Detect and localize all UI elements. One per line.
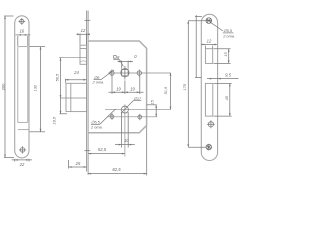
strike bottom screw hole: [206, 144, 211, 151]
dimension 45 strike: [214, 83, 232, 116]
keyhole centerline horizontal: [105, 109, 171, 111]
hole d8 right: [137, 70, 141, 77]
dimension 9.5 strike: [207, 78, 239, 80]
dimension 56.5: [60, 58, 62, 98]
svg-text:51,5: 51,5: [163, 86, 168, 94]
dimension 25: [69, 160, 87, 169]
dimension 52.5: [88, 153, 125, 155]
faceplate end ticks: [84, 20, 90, 150]
dimension 16 left plate: [16, 35, 31, 46]
svg-text:2 отв.: 2 отв.: [222, 33, 235, 38]
dimension 24 deadbolt: [65, 79, 86, 83]
svg-text:82,5: 82,5: [112, 167, 121, 172]
strike upper slot: [205, 49, 212, 64]
dimension 19.5 deadbolt half: [60, 98, 68, 114]
dimension 132 left plate box: [30, 47, 46, 132]
svg-text:15: 15: [223, 52, 228, 57]
svg-text:8: 8: [117, 55, 120, 60]
hole d6.5 right: [138, 114, 142, 120]
leader d5.5: [211, 23, 234, 33]
svg-text:56,5: 56,5: [54, 73, 59, 81]
lock body outline: [88, 41, 147, 133]
svg-text:∅17: ∅17: [134, 96, 143, 101]
svg-text:0: 0: [134, 54, 137, 59]
deadbolt: [66, 83, 87, 111]
svg-text:15: 15: [150, 99, 155, 104]
hole d6.5 left: [110, 113, 114, 119]
lower holes centerline: [107, 116, 157, 118]
svg-text:9,5: 9,5: [225, 72, 231, 77]
svg-text:19: 19: [130, 87, 135, 92]
svg-text:12: 12: [207, 38, 212, 43]
svg-text:∅5,5: ∅5,5: [223, 28, 233, 33]
dimension 82.5: [88, 127, 147, 176]
keyhole centerline vertical: [124, 104, 126, 156]
dimension 175 right plate: [187, 21, 189, 147]
dimension 19 19: [109, 76, 144, 94]
left plate inner box: [18, 47, 29, 130]
strike lower slot: [205, 83, 212, 116]
middle faceplate double line: [87, 11, 89, 176]
svg-text:19: 19: [116, 87, 121, 92]
label d8 2otv: [94, 70, 115, 80]
left plate outline: [15, 16, 29, 158]
dimension 12 strike slot: [201, 45, 217, 49]
svg-text:200: 200: [0, 83, 5, 91]
svg-text:19,5: 19,5: [52, 116, 57, 124]
dimension 200 left plate height: [4, 16, 14, 158]
dimension 10 keyhole tail: [115, 133, 135, 148]
left plate bottom screw hole: [19, 146, 26, 153]
ext line top hole: [188, 20, 206, 22]
dimension 15 right gap: [147, 105, 157, 117]
strike middle hole: [207, 120, 215, 128]
svg-text:22: 22: [19, 162, 25, 167]
right plate top screw hole: [206, 18, 212, 24]
dimension 51.5 right gap: [170, 73, 172, 110]
aux dim line right plate: [195, 15, 202, 78]
dimension 22 left plate width: [12, 159, 33, 162]
label d17: [121, 101, 141, 114]
label square 8: [113, 56, 123, 67]
latch centerline: [59, 57, 87, 59]
svg-text:10: 10: [124, 138, 129, 143]
svg-text:2 отв.: 2 отв.: [90, 124, 103, 129]
svg-text:132: 132: [33, 84, 38, 91]
hole d8 left: [110, 70, 114, 77]
svg-text:24: 24: [73, 70, 79, 75]
dimension 15 strike: [214, 49, 231, 64]
ext line bottom hole: [188, 146, 206, 148]
svg-text:12: 12: [81, 28, 86, 33]
svg-text:25: 25: [75, 161, 81, 166]
label d6.5 2otv: [91, 109, 116, 124]
svg-text:52,5: 52,5: [98, 147, 107, 152]
upper holes centerline: [108, 72, 170, 74]
square spindle hole: [121, 66, 129, 80]
left plate top screw hole: [18, 18, 25, 25]
svg-text:16: 16: [19, 29, 24, 34]
keyhole: [121, 106, 128, 133]
latch bolt: [80, 45, 87, 64]
deadbolt centerline: [60, 97, 87, 99]
svg-text:45: 45: [224, 95, 229, 100]
right plate outline: [201, 14, 217, 160]
svg-text:175: 175: [182, 83, 187, 90]
dimension 12 latch: [77, 34, 91, 45]
svg-text:2 отв.: 2 отв.: [92, 80, 105, 85]
dimension square 8: [118, 61, 134, 69]
